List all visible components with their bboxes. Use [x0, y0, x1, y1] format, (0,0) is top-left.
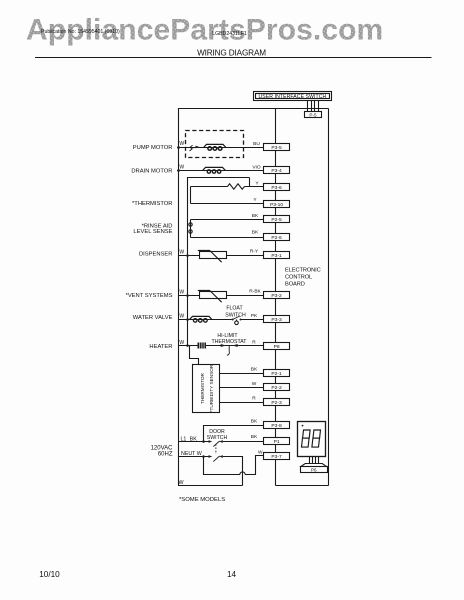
wire NEUT — [178, 456, 209, 458]
svg-text:LGBD2431LF1: LGBD2431LF1 — [212, 31, 247, 37]
svg-text:FLOAT: FLOAT — [226, 306, 243, 312]
door switch pole 2 contacts — [209, 455, 213, 458]
wire R to P2-3 — [220, 402, 264, 404]
connector P3-2 — [264, 292, 290, 299]
svg-text:P3-10: P3-10 — [270, 202, 283, 208]
drain motor winding — [203, 167, 226, 173]
line voltage labels — [151, 436, 202, 486]
control board left edge — [275, 109, 277, 486]
user interface switch U-SW — [254, 92, 332, 101]
svg-text:W: W — [179, 164, 184, 170]
svg-text:SWITCH: SWITCH — [207, 435, 228, 441]
svg-text:*TURBIDITY SENSOR: *TURBIDITY SENSOR — [209, 364, 214, 412]
wire W to P2-2 — [220, 387, 264, 389]
junction drain W to neutral edge — [177, 169, 180, 172]
thermistor RT1 — [132, 178, 264, 207]
rinse aid level sensor — [133, 213, 263, 238]
svg-text:W: W — [179, 480, 184, 486]
svg-text:*THERMISTOR: *THERMISTOR — [132, 201, 172, 207]
svg-text:P3-4: P3-4 — [271, 168, 282, 174]
junction NEUT tap — [202, 455, 205, 458]
connector P3-5 — [264, 144, 290, 151]
control board right edge — [328, 109, 330, 486]
svg-text:LEVEL SENSE: LEVEL SENSE — [133, 229, 172, 235]
svg-text:BK: BK — [251, 419, 258, 425]
svg-text:P3-3: P3-3 — [271, 317, 282, 323]
turbidity sensor box — [193, 365, 220, 413]
svg-text:R-Y: R-Y — [250, 249, 259, 255]
svg-text:CONTROL: CONTROL — [285, 274, 312, 280]
door switch pole 1 contacts — [209, 440, 213, 443]
display decimal point — [302, 425, 304, 427]
svg-text:P2-3: P2-3 — [271, 400, 282, 406]
svg-text:P3-1: P3-1 — [271, 253, 282, 259]
svg-text:BK: BK — [252, 213, 259, 219]
svg-text:W: W — [258, 449, 263, 455]
connector P2-2 — [264, 384, 290, 391]
wire BK to P1 — [223, 441, 264, 443]
svg-text:120VAC: 120VAC — [151, 445, 174, 451]
wire Y to P3-6 left segment — [191, 186, 228, 188]
svg-text:P1: P1 — [274, 439, 280, 445]
svg-text:ELECTRONIC: ELECTRONIC — [285, 268, 321, 274]
svg-text:P3-7: P3-7 — [271, 454, 282, 460]
wire switch to neutral bottom bus — [223, 457, 243, 486]
svg-text:VIO: VIO — [252, 165, 261, 171]
pump motor M1 — [133, 131, 264, 158]
wire W heater — [178, 345, 264, 347]
svg-text:USER INTERFACE SWITCH: USER INTERFACE SWITCH — [259, 94, 327, 100]
wire to P3-10 — [191, 203, 264, 205]
wire W pump — [178, 147, 264, 149]
svg-text:SWITCH: SWITCH — [225, 312, 246, 318]
thermistor loop left edge — [190, 187, 192, 204]
connector P2-3 — [264, 399, 290, 406]
water valve coil — [190, 316, 213, 319]
dispenser actuator — [139, 249, 264, 263]
control board bottom edge — [276, 485, 329, 487]
junction vent W on bus — [186, 294, 189, 297]
dispenser wax motor symbol — [200, 252, 227, 259]
svg-text:BOARD: BOARD — [285, 281, 305, 287]
wire Y to P3-6 right segment — [245, 186, 264, 188]
wire bus tap to thermistor — [249, 178, 251, 187]
junction heater W on bus — [186, 344, 189, 347]
svg-text:P3-2: P3-2 — [271, 293, 282, 299]
svg-text:WIRING DIAGRAM: WIRING DIAGRAM — [197, 48, 266, 57]
connector P3-6 — [264, 184, 290, 191]
header underline — [35, 57, 432, 59]
svg-text:*SOME MODELS: *SOME MODELS — [179, 497, 225, 503]
dashed box pump protector — [186, 131, 244, 158]
svg-text:R: R — [252, 396, 256, 402]
pump thermal protector arrow — [190, 145, 200, 151]
svg-text:WATER VALVE: WATER VALVE — [133, 315, 173, 321]
wire W water valve — [178, 319, 233, 321]
sensor electrode lower — [189, 230, 192, 233]
wire to P2-6 — [191, 237, 264, 239]
svg-text:W: W — [179, 249, 184, 255]
vent wax motor symbol — [200, 292, 227, 299]
heater element symbol — [198, 343, 207, 349]
connector P3-4 — [264, 167, 290, 174]
connector P3-10 — [264, 201, 290, 208]
display DS1 — [298, 422, 328, 473]
svg-text:14: 14 — [227, 570, 237, 579]
wire BK to P2-1 — [220, 373, 264, 375]
thermistor resistor zigzag — [228, 184, 245, 189]
wire L1 — [178, 441, 209, 443]
svg-text:NEUT W: NEUT W — [181, 451, 202, 457]
svg-text:P-5: P-5 — [309, 113, 317, 118]
svg-text:W: W — [179, 141, 184, 147]
connector P2-6 — [264, 234, 290, 241]
junction pump W to neutral edge — [177, 146, 180, 149]
wire W drain — [178, 170, 264, 172]
svg-text:P2-6: P2-6 — [271, 235, 282, 241]
svg-text:P2-2: P2-2 — [271, 385, 282, 391]
svg-text:BK: BK — [251, 367, 258, 373]
svg-text:R-BK: R-BK — [249, 289, 261, 295]
svg-text:P3-8: P3-8 — [271, 423, 282, 429]
wires UI switch to P-5 — [308, 101, 319, 112]
user interface switch outer box — [254, 92, 332, 101]
svg-text:60HZ: 60HZ — [158, 452, 173, 458]
svg-text:P2-5: P2-5 — [271, 217, 282, 223]
svg-text:Y: Y — [255, 180, 259, 186]
cabinet box left edge (W neutral bus) — [178, 109, 180, 486]
water valve solenoid — [133, 306, 264, 325]
svg-text:Y: Y — [253, 197, 257, 203]
svg-text:W: W — [252, 381, 257, 387]
user interface switch inner box — [256, 94, 330, 99]
svg-text:PUMP MOTOR: PUMP MOTOR — [133, 145, 173, 151]
svg-text:DRAIN MOTOR: DRAIN MOTOR — [131, 168, 172, 174]
connector P2-1 — [264, 370, 290, 377]
svg-text:*VENT SYSTEMS: *VENT SYSTEMS — [126, 293, 173, 299]
cabinet box top edge — [178, 108, 329, 110]
svg-text:HEATER: HEATER — [149, 344, 172, 350]
connector P1 — [264, 438, 290, 445]
display outline — [298, 422, 326, 457]
svg-text:THERMOSTAT: THERMOSTAT — [212, 339, 248, 345]
display connector shroud — [301, 464, 327, 467]
connector P6 — [301, 467, 328, 473]
svg-text:P2-1: P2-1 — [271, 371, 282, 377]
drain motor M2 — [131, 164, 263, 174]
wire W dispenser — [178, 255, 264, 257]
sensor electrode upper — [189, 223, 192, 226]
svg-text:BK: BK — [251, 434, 258, 440]
display pins — [310, 457, 319, 464]
wire to P2-5 — [191, 219, 264, 221]
svg-text:DISPENSER: DISPENSER — [139, 251, 173, 257]
digit 1 — [303, 430, 311, 438]
connector P3-7 — [264, 453, 290, 460]
svg-text:P3-5: P3-5 — [271, 145, 282, 151]
left W bus — [188, 178, 250, 346]
svg-text:W: W — [179, 289, 184, 295]
door switch mechanical link (dashed) — [215, 444, 217, 454]
svg-text:PK: PK — [251, 313, 258, 319]
digit 2 — [313, 430, 321, 438]
vent system actuator — [126, 289, 264, 303]
connector P-5 — [305, 112, 322, 118]
connector P3-3 — [264, 316, 290, 323]
ELECTRONIC CONTROL BOARD label — [285, 268, 321, 288]
pump motor winding — [204, 144, 227, 150]
sensor probe left edge — [190, 220, 192, 238]
turbidity sensor — [190, 346, 264, 413]
svg-text:W: W — [179, 313, 184, 319]
wire hop over switched neutral — [240, 472, 245, 475]
svg-text:BK: BK — [252, 230, 259, 236]
connector P3-1 — [264, 252, 290, 259]
junction dispenser W on bus — [186, 254, 189, 257]
wire heater node to turbidity sensor — [190, 346, 199, 365]
svg-text:BU: BU — [253, 141, 260, 147]
wire NEUT to P3-7 with hop — [204, 457, 240, 475]
svg-text:P6: P6 — [311, 467, 317, 472]
heater element — [149, 333, 263, 355]
svg-text:R: R — [252, 339, 256, 345]
svg-text:10/10: 10/10 — [39, 570, 60, 579]
connector P2-5 — [264, 216, 290, 223]
wire P3-8 to L1 — [204, 426, 264, 442]
svg-text:Publication No: 154595401 (091: Publication No: 154595401 (0910) — [41, 29, 120, 35]
svg-text:W: W — [179, 340, 184, 346]
junction P3-8 branch on L1 wire — [202, 440, 205, 443]
connector P8 — [264, 343, 290, 350]
junction water valve W on bus — [186, 318, 189, 321]
svg-text:P3-6: P3-6 — [271, 185, 282, 191]
door switch S1 — [178, 429, 264, 485]
svg-text:P8: P8 — [274, 344, 280, 350]
cabinet box bottom edge left part — [178, 485, 243, 487]
svg-text:THERMISTOR: THERMISTOR — [200, 372, 205, 404]
connector P3-8 — [264, 422, 290, 429]
wire W vent — [178, 295, 264, 297]
